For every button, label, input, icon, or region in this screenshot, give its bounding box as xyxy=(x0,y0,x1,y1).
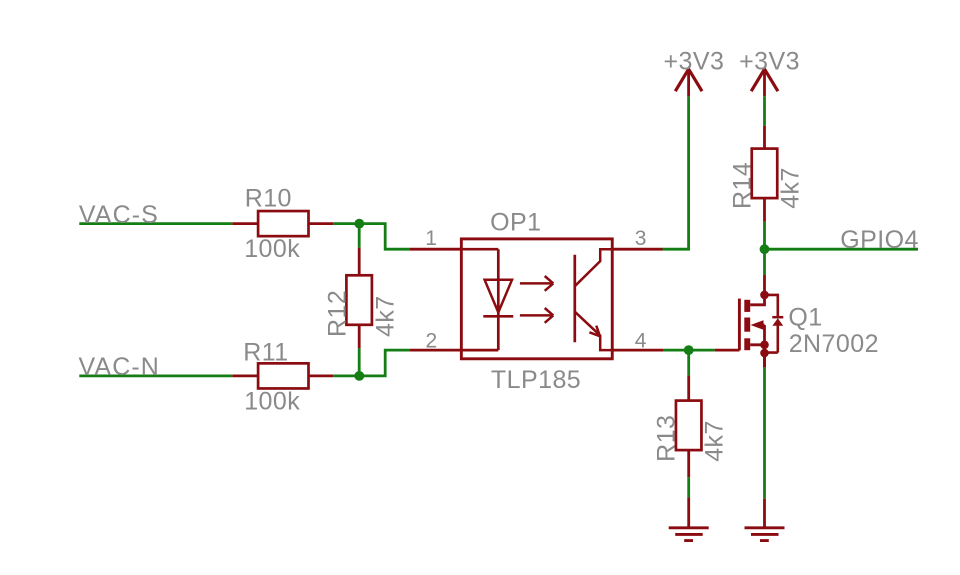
svg-text:4: 4 xyxy=(635,329,647,352)
node junction pin4/R13/gate xyxy=(684,345,694,355)
ground symbol 1 stem xyxy=(687,497,690,527)
svg-text:2: 2 xyxy=(426,329,438,352)
transistor Q1 source connection xyxy=(750,345,764,367)
svg-text:R13: R13 xyxy=(653,415,681,462)
svg-text:R11: R11 xyxy=(243,339,288,367)
svg-text:R12: R12 xyxy=(324,290,352,337)
svg-text:4k7: 4k7 xyxy=(701,420,729,462)
ground symbol 2 stem xyxy=(763,353,766,528)
svg-text:VAC-S: VAC-S xyxy=(79,201,159,229)
optocoupler OP1 pin 2 wire xyxy=(410,349,461,352)
transistor Q1 channel dashes xyxy=(744,300,750,350)
supply +3V3 symbol 1 arrow xyxy=(675,69,702,91)
svg-text:GPIO4: GPIO4 xyxy=(840,226,919,254)
svg-text:100k: 100k xyxy=(244,235,300,263)
svg-text:R10: R10 xyxy=(245,185,292,213)
resistor R11 pins xyxy=(232,374,333,377)
node junction GPIO4 xyxy=(760,244,770,254)
optocoupler OP1 pin 1 wire xyxy=(410,248,461,251)
OP1 LED cathode bar xyxy=(483,315,513,318)
OP1 phototransistor collector xyxy=(575,249,612,286)
svg-text:2N7002: 2N7002 xyxy=(789,330,879,358)
svg-text:1: 1 xyxy=(425,227,437,250)
resistor R13 body xyxy=(676,401,702,451)
svg-text:VAC-N: VAC-N xyxy=(79,353,160,381)
svg-text:R14: R14 xyxy=(729,162,757,209)
svg-text:TLP185: TLP185 xyxy=(491,366,581,394)
wire net GPIO4 xyxy=(765,248,919,251)
OP1 LED triangle xyxy=(485,280,512,313)
supply +3V3 symbol 1 stem xyxy=(687,70,690,97)
transistor Q1 gate wire xyxy=(715,349,740,352)
wire net VAC-S from R10 to junction and to opto pin 1 xyxy=(333,224,410,250)
svg-text:3: 3 xyxy=(635,227,647,250)
supply +3V3 symbol 2 arrow xyxy=(751,69,778,91)
wire net pin4 node xyxy=(663,349,715,352)
svg-text:+3V3: +3V3 xyxy=(664,47,725,75)
OP1 phototransistor emitter xyxy=(575,312,612,350)
wire R12 top green segment xyxy=(358,224,361,248)
node Q1 source/diode dot xyxy=(760,349,769,358)
transistor Q1 bulk connection xyxy=(763,325,765,345)
transistor Q1 bulk arrow xyxy=(751,320,764,330)
node Q1 source dot xyxy=(760,341,769,350)
svg-text:+3V3: +3V3 xyxy=(739,47,800,75)
OP1 LED anode lead xyxy=(461,249,498,350)
transistor Q1 gate bar xyxy=(738,299,741,351)
wire net VAC-N left segment xyxy=(79,374,232,377)
svg-text:100k: 100k xyxy=(244,388,300,416)
wire pin4 node down to R13 xyxy=(687,350,690,376)
node junction VAC-S/R12 xyxy=(354,219,364,229)
svg-text:4k7: 4k7 xyxy=(372,295,400,337)
diode Q1 triangle xyxy=(772,318,783,326)
resistor R10 pins xyxy=(232,222,333,225)
optocoupler OP1 box xyxy=(461,239,612,359)
node junction VAC-N/R12 xyxy=(354,371,364,381)
resistor R13 pins xyxy=(687,376,690,478)
resistor R10 body xyxy=(258,211,308,236)
wire Q1 source to ground green xyxy=(763,367,766,499)
svg-text:OP1: OP1 xyxy=(490,209,541,237)
optocoupler OP1 pin 3 wire xyxy=(612,248,662,251)
OP1 light arrow lower xyxy=(520,308,553,323)
node Q1 drain dot xyxy=(760,291,769,300)
optocoupler OP1 pin 4 wire xyxy=(612,349,663,352)
wire net VAC-N from R11 to junction and to opto pin 2 xyxy=(333,350,410,376)
wire R14 to GPIO4 node xyxy=(763,222,766,250)
wire +3V3 to R14 green segment xyxy=(763,96,766,126)
wire net pin3 to +3V3 xyxy=(663,96,689,249)
resistor R12 pins xyxy=(358,248,361,348)
ground symbol 1 bars xyxy=(669,528,709,541)
resistor R14 body xyxy=(752,149,778,199)
wire GPIO4 node down to Q1 drain xyxy=(763,249,766,275)
wire R13 to ground green xyxy=(687,477,690,497)
OP1 phototransistor base bar xyxy=(573,255,576,342)
OP1 light arrow upper xyxy=(520,276,553,291)
resistor R14 pins xyxy=(763,126,766,222)
resistor R11 body xyxy=(258,363,308,388)
svg-text:Q1: Q1 xyxy=(788,303,822,331)
wire R12 bottom green segment xyxy=(358,348,361,376)
ground symbol 2 bars xyxy=(745,528,785,541)
OP1 emitter arrowhead xyxy=(589,326,600,337)
diode Q1 cathode bar xyxy=(772,316,783,319)
diode Q1 body diode branch xyxy=(765,295,778,353)
wire net VAC-S left segment xyxy=(79,222,232,225)
supply +3V3 symbol 2 stem xyxy=(763,70,766,97)
svg-text:4k7: 4k7 xyxy=(776,167,804,209)
transistor Q1 drain connection xyxy=(750,275,764,305)
resistor R12 body xyxy=(346,275,372,325)
